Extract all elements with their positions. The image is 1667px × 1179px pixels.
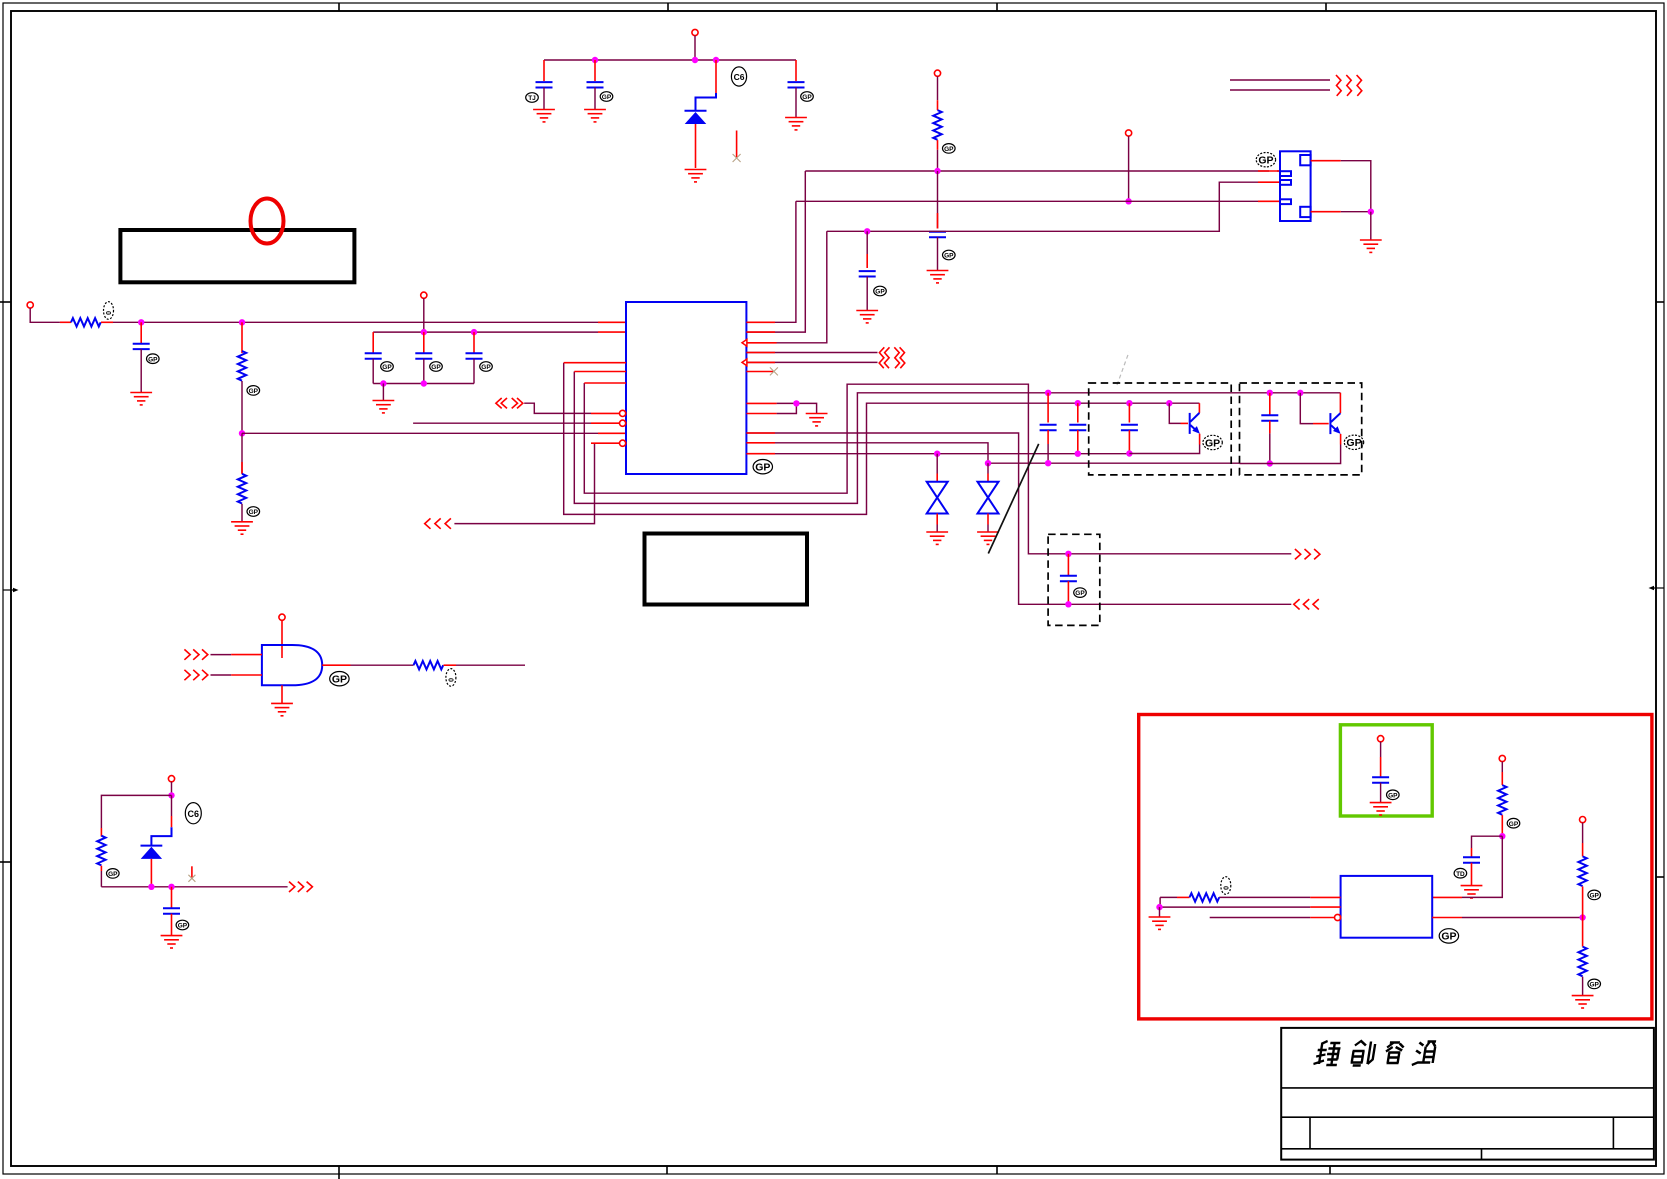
title block divider a (1309, 1117, 1311, 1149)
ground zener Z1 (926, 532, 948, 544)
frame tick left 1 (0, 301, 11, 303)
frame tick top 1 (338, 3, 340, 11)
wire cap C7 bottom lead (140, 349, 142, 392)
wire zener Z2 red lead (987, 474, 989, 483)
svg-text:GP: GP (1589, 982, 1599, 989)
no-connect x marker y371 (770, 367, 778, 375)
wire cap C12 top lead (1077, 403, 1079, 422)
capacitor C18 (1463, 857, 1480, 862)
wire lower bus (101, 886, 287, 888)
wire U2 left pin3 dangling (1210, 917, 1311, 919)
node junction cap C14 bottom (1267, 460, 1273, 466)
node junction cap C15 bottom (1065, 601, 1071, 607)
label G/P oval C17 (1387, 790, 1400, 800)
wire cap C12 bottom lead (1077, 430, 1079, 454)
resistor R2 (238, 351, 246, 381)
node junction bus R2 (239, 319, 245, 325)
wire U1 right pin y433 long (746, 433, 1291, 604)
connector J1 pin notch 2 (1280, 180, 1291, 185)
wire diode D1 blue jog (696, 93, 717, 110)
wire cap C3 top lead (795, 60, 797, 81)
node junction net1 cap tap (934, 168, 940, 174)
chevrons send right low (1295, 549, 1320, 559)
wire gate output red (322, 664, 350, 666)
label GP oval Q1 (1203, 435, 1222, 449)
frame tick top 2 (667, 3, 669, 11)
wire diode D1 top lead (715, 60, 717, 93)
node junction R9 R10 (1579, 914, 1585, 920)
capacitor C8 (365, 353, 382, 358)
wire cap bank top sub-bus (373, 331, 598, 333)
diode D1 cathode bar (685, 110, 707, 112)
wire ground stem cap bank (382, 384, 384, 401)
op-amp U1 body (626, 302, 746, 474)
ground connector (1360, 240, 1382, 252)
node junction cap bus (168, 884, 174, 890)
wire bus net2 red stub pin2 (1258, 181, 1280, 183)
wire bus net1 red stub pin1 (1258, 170, 1280, 172)
capacitor C9 (415, 353, 432, 358)
svg-text:GP: GP (1509, 821, 1519, 828)
annotation slash line (988, 444, 1038, 554)
wire U2 pin2 red stub (1310, 906, 1340, 908)
ground diode D1 (685, 170, 707, 182)
wire diode D2 top lead red (171, 795, 173, 816)
wire red stub pin R413 (746, 413, 776, 415)
wire main bus to IC pin (113, 321, 598, 323)
dashed option box 2 (1240, 383, 1362, 475)
wire red stub pin R442 (746, 442, 775, 444)
power symbol R-top (934, 70, 940, 76)
wire cap C13 top lead (1128, 403, 1130, 422)
wire red stub IC pin y433 (598, 432, 626, 434)
frame tick top 3 (996, 3, 998, 11)
wire gate input B red (231, 674, 262, 676)
label G/P oval C8 (381, 362, 394, 372)
pin arrow marker y342 (742, 339, 747, 346)
wire zener Z2 top lead (987, 463, 989, 473)
ground cap C3 (785, 118, 807, 130)
wire gate input A red (231, 654, 262, 656)
wire U2 right pin1 red stub (1432, 896, 1462, 898)
label G/P oval R10 (1588, 979, 1601, 989)
node junction Q1 base tap (1166, 400, 1172, 406)
wire R4 bottom lead (241, 504, 243, 522)
power symbol input left (27, 302, 33, 308)
title block outer (1281, 1028, 1654, 1160)
wire cap C11 top lead (1047, 393, 1049, 423)
wire Q1 base red lead (1181, 422, 1189, 424)
wire junction to cap C18 (1472, 836, 1503, 848)
wire bus net3 to connector pin3 (796, 200, 1280, 202)
annotation red highlight box (1139, 715, 1652, 1019)
label R5 oval dashed (446, 669, 456, 687)
wire R2 bottom lead (241, 381, 243, 433)
svg-text:GP: GP (108, 871, 118, 878)
title block line 1 (1281, 1087, 1654, 1089)
wire cap bank power drop (423, 298, 425, 332)
wire U2 left pin1 chain (1160, 896, 1310, 898)
frame tick left 2 (0, 861, 11, 863)
title block divider c (1481, 1149, 1483, 1160)
wire zener Z2 gnd lead (987, 525, 989, 533)
wire gate power lead (281, 620, 283, 658)
capacitor C1 (536, 82, 553, 87)
diode D2 body (141, 847, 162, 859)
wire bus net1 to connector pin1 (805, 170, 1280, 172)
wire diode D1 bottom lead (695, 124, 697, 168)
wire cap C4 red lead (937, 213, 939, 229)
wire cap C5 red lead (866, 254, 868, 268)
svg-text:GP: GP (431, 364, 441, 371)
node junction R2 R4 (239, 430, 245, 436)
wire zener Z2 bottom lead (987, 514, 989, 525)
label G/P oval C10 (480, 362, 493, 372)
wire cap C10 top lead (473, 332, 475, 352)
wire Q2 emitter lead (1340, 434, 1342, 445)
ground cap C5 (856, 311, 878, 323)
wire connector ground stem (1370, 212, 1372, 240)
capacitor C16 (163, 908, 180, 913)
diode D2 cathode bar (141, 845, 163, 847)
title block line 3 (1281, 1148, 1654, 1150)
wire U1 right gnd pin B (777, 403, 797, 413)
svg-text:C6: C6 (734, 72, 745, 82)
node junction subbus c10 (471, 329, 477, 335)
wire zener Z1 top lead (936, 454, 938, 474)
transistor Q2 (1330, 393, 1340, 434)
wire cap C11 bottom lead (1047, 444, 1049, 463)
chevrons receive right low (1294, 599, 1319, 609)
capacitor C13 (1121, 425, 1138, 430)
svg-text:GP: GP (481, 364, 491, 371)
label G/P oval R3 (943, 144, 956, 154)
wire cap C2 top lead (594, 60, 596, 81)
annotation black box 1 (120, 230, 354, 282)
wire branch to resistor R6 (101, 795, 171, 828)
node junction bus diode (713, 57, 719, 63)
chevrons send lower left (289, 882, 312, 892)
wire connector right top (1311, 160, 1341, 162)
wire R7 top lead (1501, 762, 1503, 772)
resistor R6 (97, 836, 105, 866)
frame tick right 1 (1656, 301, 1664, 303)
power symbol VCC top (692, 29, 698, 35)
wire R9 bottom lead (1582, 886, 1584, 917)
wire U1 left pin loop A (564, 363, 1200, 515)
resistor R5 gate output (414, 661, 444, 669)
wire cap bank bottom bus (373, 383, 474, 385)
svg-text:0: 0 (1221, 886, 1228, 890)
wire R7 red lead (1501, 772, 1503, 785)
wire cap C11 bottom lead red (1047, 430, 1049, 444)
wire R9 red lead (1582, 843, 1584, 856)
label G/P oval C4 (943, 250, 956, 260)
wire connector right bottom (1311, 211, 1341, 213)
wire cap C9 top lead (423, 332, 425, 352)
resistor R3 (933, 110, 941, 140)
wire input red lead right (101, 321, 113, 323)
wire R3 to bus (937, 150, 939, 171)
wire R9 top lead (1582, 823, 1584, 843)
svg-text:GP: GP (148, 356, 158, 363)
wire red stub pin R362 (746, 361, 775, 363)
wire U2 pin1 corner down (1159, 897, 1161, 907)
wire U1 right pin to chevrons B (746, 361, 877, 363)
node junction diode bus (148, 884, 154, 890)
wire cap C15 top lead (1067, 554, 1069, 575)
ground cap C17 (1370, 803, 1392, 815)
label T/J oval C1 (526, 93, 539, 103)
node junction zener Z1 (934, 451, 940, 457)
node junction cap C11 bottom (1045, 460, 1051, 466)
frame center arrow right (1649, 586, 1665, 590)
wire red stub pin R352 (746, 352, 775, 354)
wire U1 left pin loop B (574, 372, 1340, 504)
capacitor C17 (1372, 777, 1389, 782)
wire U2 right pin2 to junction (1462, 917, 1583, 919)
wire Q2 base red lead (1313, 423, 1329, 425)
label GP oval gate (330, 672, 349, 686)
svg-text:GP: GP (944, 253, 954, 260)
label C6 oval top (731, 67, 746, 86)
node junction cap C14 top (1267, 390, 1273, 396)
wire U1 left pin loop C (584, 383, 1291, 554)
wire cap C17 bottom lead (1380, 783, 1382, 803)
node junction cap C11 top (1045, 390, 1051, 396)
wire diode D2 blue jog (151, 827, 171, 845)
node junction R7 cap (1499, 833, 1505, 839)
wire R7 bottom lead (1501, 815, 1503, 836)
wire Q1 base loop (1169, 403, 1180, 423)
node junction cap C12 top (1075, 400, 1081, 406)
node junction cap C15 top (1065, 551, 1071, 557)
power symbol lower left (168, 776, 174, 782)
svg-text:GP: GP (1075, 590, 1085, 597)
wire cap C4 bottom lead (937, 237, 939, 270)
resistor R7 (1498, 785, 1506, 815)
svg-text:GP: GP (1441, 931, 1456, 943)
resistor R10 (1578, 947, 1586, 977)
transistor Q1 (1190, 403, 1200, 434)
wire diode D2 bottom lead (150, 859, 152, 887)
wire dangling to pin bubble y423 (413, 422, 591, 424)
svg-text:GP: GP (1346, 437, 1361, 449)
wire cap C13 bottom lead (1128, 430, 1130, 453)
wire R4 top lead (241, 433, 243, 474)
wire U1 right pin y442 long (746, 443, 1239, 463)
wire gate input A (211, 654, 232, 656)
wire zener Z1 bottom lead (936, 514, 938, 525)
label GP oval connector (1256, 153, 1275, 167)
connector J1 pad bottom (1300, 207, 1310, 217)
wire cap C15 bottom lead (1067, 581, 1069, 604)
capacitor C3 (788, 82, 805, 87)
pin arrow marker y362 (742, 359, 747, 366)
wire cap C4 top lead (937, 171, 939, 229)
wire U2 right pin2 red stub (1432, 917, 1462, 919)
wire cap C16 bottom lead (171, 914, 173, 936)
node junction power bus2 (1125, 198, 1131, 204)
wire red stub pin y371L (574, 371, 626, 373)
ground cap C18 (1461, 886, 1483, 898)
wire top power bus (544, 59, 796, 61)
wire cap C18 bottom lead (1471, 863, 1473, 886)
pin bubble y443 (620, 440, 626, 446)
node junction U2 gnd (1156, 904, 1162, 910)
node junction bus power (692, 57, 698, 63)
bus chevrons pair left (496, 398, 523, 408)
svg-text:GP: GP (802, 94, 812, 101)
wire red stub bubble pin y423 (591, 422, 620, 424)
wire cap C10 bottom lead (473, 359, 475, 384)
wire cap C2 bottom lead (594, 88, 596, 110)
wire U1 right pin2 riser (746, 171, 805, 332)
chevrons gate input A (184, 649, 207, 659)
wire chevron to U1 pin bubble (524, 403, 591, 413)
svg-text:GP: GP (602, 94, 612, 101)
and-gate U3 body (262, 645, 322, 685)
wire diode D2 red seg (171, 816, 173, 827)
wire bus pair stub A (1230, 79, 1330, 81)
chevrons gate input B (184, 670, 207, 680)
title block line 2 (1281, 1116, 1654, 1118)
node junction net2 cap tap (864, 228, 870, 234)
capacitor C15 (1060, 576, 1077, 581)
wire cap C14 red lead low (1269, 421, 1271, 434)
ground R4 (231, 522, 253, 534)
ground U2 left (1149, 917, 1171, 929)
wire R10 top lead (1582, 918, 1584, 947)
connector J1 pin notch 3 (1280, 199, 1291, 204)
wire cap C9 bottom lead (423, 359, 425, 384)
wire connector right bottom purple (1341, 211, 1371, 213)
svg-text:GP: GP (249, 509, 259, 516)
label GP oval U2 (1439, 929, 1458, 943)
frame tick top 4 (1325, 3, 1327, 11)
svg-text:GP: GP (178, 923, 188, 930)
zener Z2 (978, 482, 999, 514)
zener Z1 (927, 482, 948, 514)
wire cap C8 top lead (372, 332, 374, 352)
wire resistor R3 red lead (937, 100, 939, 110)
wire no-connect stub y371 (746, 371, 773, 373)
svg-text:C6: C6 (188, 809, 200, 819)
ground cap C16 (161, 936, 183, 948)
wire R5 to end (456, 664, 525, 666)
pin bubble y413 (620, 410, 626, 416)
wire red stub pin R342 (746, 342, 776, 344)
label C6 oval lower (185, 803, 201, 824)
ground cap C2 (584, 110, 606, 122)
no-connect marker top (733, 131, 741, 163)
wire red stub pin y362 (564, 362, 626, 364)
wire bus net3 red stub pin3 (1258, 200, 1280, 202)
label G/P oval R2 (247, 386, 260, 396)
capacitor C7 (133, 344, 150, 349)
frame tick bottom 4 (1329, 1166, 1331, 1174)
wire R6 to bus (100, 871, 102, 887)
wire cap C3 bottom lead (795, 88, 797, 118)
ground R10 (1572, 996, 1594, 1008)
svg-text:GP: GP (1388, 792, 1398, 799)
node junction bottom bus c9 (421, 380, 427, 386)
label G/P oval C9 (430, 362, 443, 372)
ground cap C7 (130, 393, 152, 405)
bus chevrons pair right mid (879, 347, 905, 368)
wire R2 top lead (241, 322, 243, 353)
svg-text:0: 0 (446, 678, 453, 682)
wire resistor R3 bottom lead (937, 140, 939, 150)
svg-text:TD: TD (1456, 871, 1465, 878)
capacitor C2 (587, 82, 604, 87)
wire Q1 emitter lead (1199, 434, 1201, 445)
capacitor C5 (859, 271, 876, 276)
power symbol cap bank (421, 292, 427, 298)
wire R4 red lead (241, 462, 243, 474)
dashed option box 1 (1089, 383, 1232, 475)
frame tick bottom 3 (996, 1166, 998, 1174)
wire cap C5 top lead (866, 231, 868, 268)
ground gate (271, 703, 293, 715)
label G/P oval C7 (147, 354, 160, 364)
annotation red ellipse (251, 199, 284, 244)
wire red stub pin R322 (746, 321, 775, 323)
label G/P oval C2 (600, 92, 613, 102)
wire cap C17 top lead (1380, 742, 1382, 757)
power symbol R9 (1580, 817, 1586, 823)
wire cap C17 red lead (1380, 757, 1382, 777)
wire gate output (351, 664, 414, 666)
wire red stub bubble pin y413 (591, 412, 620, 414)
svg-text:GP: GP (249, 388, 259, 395)
dashed option box 3 (1048, 534, 1100, 625)
label G/P oval C3 (801, 92, 814, 102)
wire cap C14 top lead (1269, 393, 1271, 415)
title block divider b (1612, 1117, 1614, 1149)
wire red stub bubble pin y443 (591, 442, 620, 444)
wire U1 right gnd pin A (777, 403, 817, 413)
wire red stub pin R453 (746, 453, 775, 455)
wire cap C1 bottom lead (543, 88, 545, 110)
svg-text:0: 0 (104, 311, 111, 315)
svg-text:GP: GP (1589, 893, 1599, 900)
wire red stub pin R403 (746, 402, 776, 404)
label G/P oval R6 (107, 869, 120, 879)
resistor R4 (238, 474, 246, 504)
wire R6 red lead top (100, 828, 102, 837)
wire U2 pin3 red stub (1310, 917, 1334, 919)
svg-text:GP: GP (1205, 437, 1220, 449)
capacitor C11 (1040, 425, 1057, 430)
wire power drop to bus (694, 36, 696, 60)
ground cap bank (373, 401, 395, 413)
svg-text:GP: GP (755, 462, 770, 474)
label GP oval U1 (753, 460, 772, 474)
capacitor C4 (929, 232, 946, 237)
wire loop to pin bubble y443 (454, 443, 594, 523)
label G/P oval C16 (176, 920, 189, 930)
connector J1 body (1280, 151, 1311, 221)
power symbol gate (279, 614, 285, 620)
wire red stub pin y383 (584, 382, 626, 384)
annotation black box 2 (645, 534, 808, 605)
wire cap C16 top lead (171, 887, 173, 908)
power symbol R7 (1499, 755, 1505, 761)
connector J1 pad top (1300, 155, 1310, 165)
capacitor C14 (1261, 415, 1278, 420)
svg-text:GP: GP (332, 674, 347, 686)
